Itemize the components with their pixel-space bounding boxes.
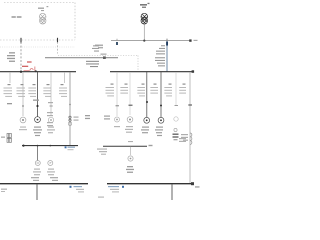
feeder labels under B2L [4,84,68,97]
equivalent load EQ1 (hatched box) [7,134,11,143]
motor M8 [128,156,133,161]
label left below B4 [1,189,7,190]
feeder F3 wire (dark) [37,72,39,117]
bus B1 (gray, middle) [45,57,118,59]
motor M7 [48,161,53,166]
spare feed dashed wire [57,38,59,43]
label below MCC [97,149,107,155]
feeder F4 wire [50,72,52,116]
label B5 right [195,186,200,187]
junction on bus B1 [103,56,106,59]
bus B2L (main low-voltage left) [0,71,76,73]
label F6 cable [47,102,90,126]
feeder F10 wire (dark) [160,72,162,117]
bus B2R end cap [192,70,195,73]
feeder F12 wire to reactor [189,72,191,184]
grid boundary dashed box [0,3,75,41]
bus B4 [0,183,88,185]
label T1 [38,6,48,11]
junction node T2/bus MT [143,40,145,42]
bus MT end cap [189,39,191,41]
feeder F1 stub [9,72,11,83]
motor M3 (light) [115,117,120,122]
feeder F2 wire [22,72,24,116]
label B4 blue [74,186,85,192]
motor M5 (dark) [144,117,150,123]
label M1 [19,127,27,131]
label utility params [7,52,15,62]
load L2 [35,161,40,166]
load L1 (light) [174,117,178,121]
node B3/F6 blue [65,146,67,148]
label M8 [126,166,134,173]
utility feed dashed wire [20,42,22,71]
node B4 blue [70,186,72,188]
label M3 [104,116,120,128]
label MCC end [149,145,153,146]
label X1 [181,134,188,141]
label left of bus MT [95,45,103,49]
breaker pair on F6 [69,116,71,118]
label M2 [33,127,42,137]
dashed tie wire to B2R [58,55,138,57]
label feeder main [155,45,165,66]
wire B3 to load L2 [37,146,39,161]
motor M1 (light) [20,117,26,123]
node CB blue on bus MT [116,42,118,45]
bus B5 end cap [191,182,194,185]
label M2b [47,127,55,134]
motor M6 (dark) [158,117,164,123]
wire below B5 [171,184,173,200]
label T2 [140,3,150,8]
wire below B4 [36,184,38,200]
wire T2 to bus MT [143,24,145,40]
reactor X1 on F12 [190,133,192,144]
wire MCC to motor M8 [130,147,132,156]
small label between buses [98,197,104,198]
red tie switch (open) [24,67,35,72]
bus MCC [103,145,147,147]
node B5 blue [122,186,124,188]
node dot F3 [36,105,38,107]
node B3 left [22,145,24,147]
wire CB-main to bus B2R [166,46,168,72]
bus B5 [107,183,192,185]
feeder F5 stub [64,72,66,83]
feeder F8 wire [129,72,131,115]
label Y-MED 2 [12,16,22,18]
label B5 [108,186,119,192]
feeder F11 stub [175,72,177,106]
motor M2b (light) [48,117,53,122]
labels above bus B4 [31,177,58,181]
label EQ1 [1,137,5,138]
motor M2 (dark) [35,117,41,123]
feeder F6 wire to bus B3 [69,72,71,145]
label M4 [125,126,133,133]
node label [7,103,12,104]
label L2 [33,169,41,176]
label M5 [141,127,149,134]
breaker CB-main (cyan) [166,41,168,45]
motor M4 (light) [127,117,133,123]
feeder F7 wire [116,72,118,116]
label M6 [155,127,163,137]
label B3 blue [68,147,76,151]
feeder F9 wire (dark) [146,72,148,117]
node dot F2 [22,105,24,107]
dotted separator line [0,46,75,48]
label below B1 junction [86,61,99,67]
label M7 [47,169,55,176]
junction utility/B2L [20,71,22,73]
label L1 with lump [173,128,187,142]
bus B2R (main low-voltage right) [110,71,192,73]
label above B1 [92,45,99,51]
feeder labels under B2R [106,84,187,97]
bus MT (top right) [111,40,190,42]
bus B3 [22,145,78,147]
